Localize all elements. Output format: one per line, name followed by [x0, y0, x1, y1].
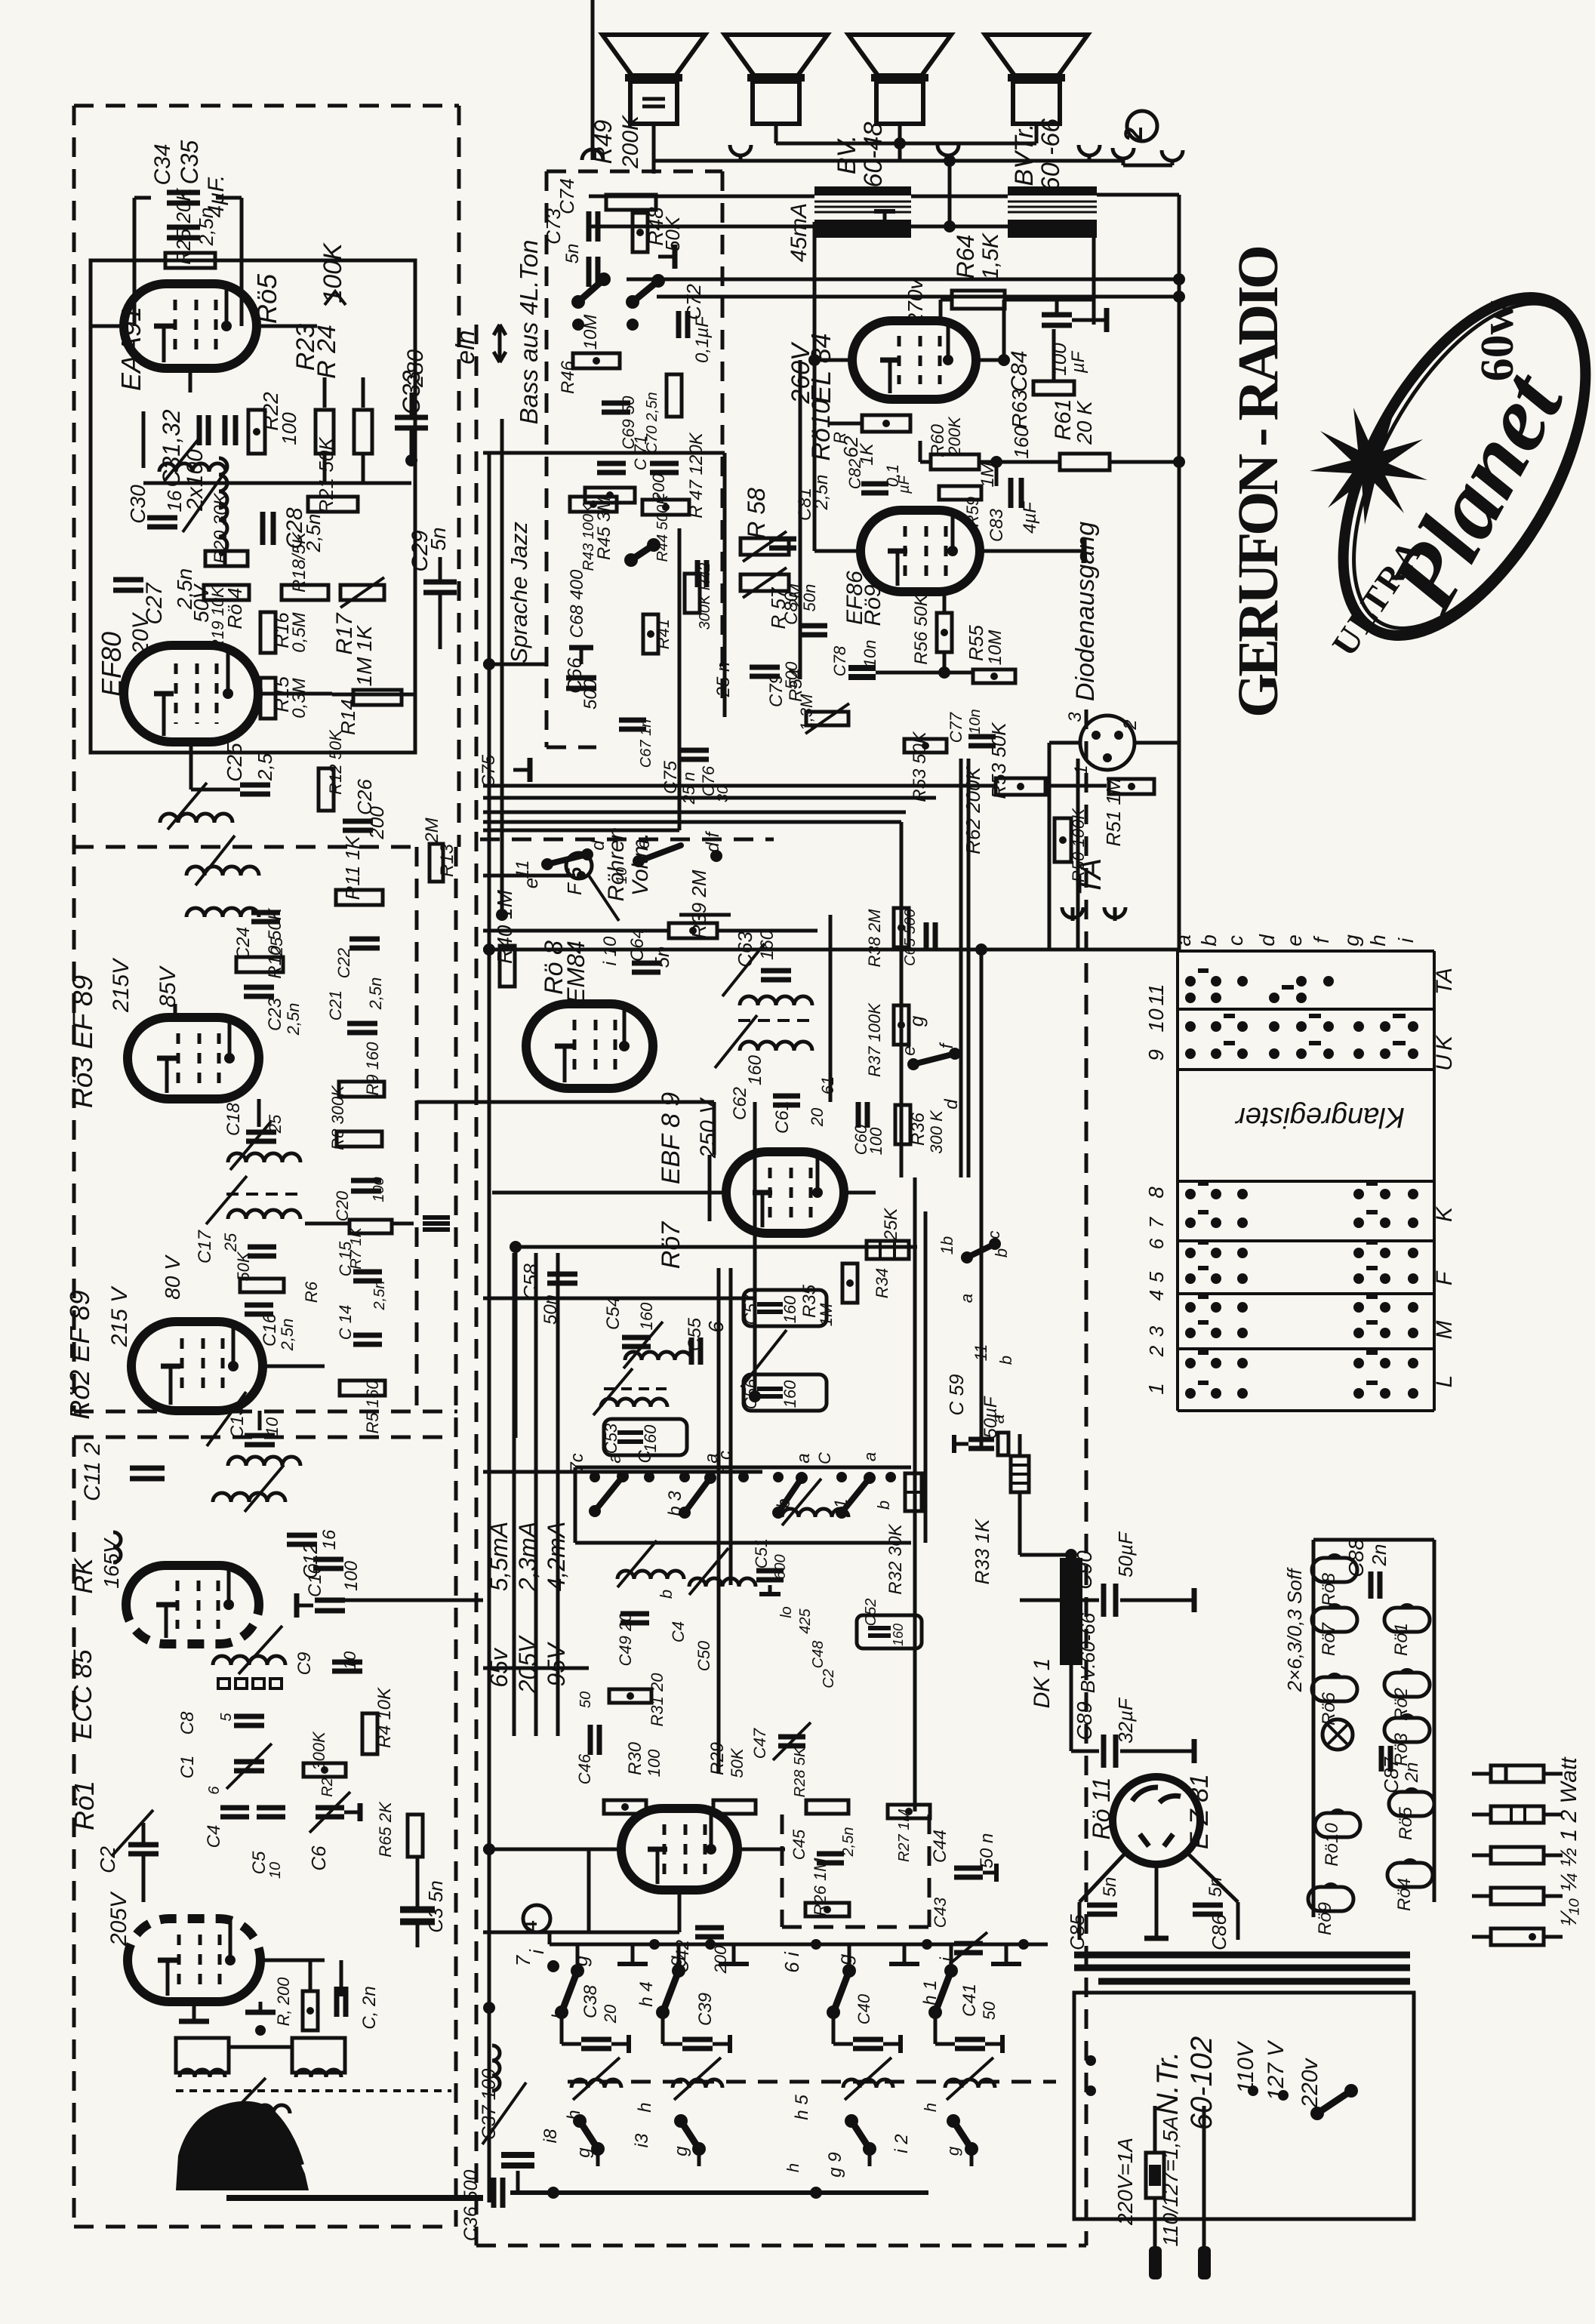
svg-text:a: a [605, 1453, 625, 1463]
svg-text:C47: C47 [750, 1728, 769, 1759]
svg-text:1M: 1M [817, 1303, 836, 1326]
svg-text:F: F [563, 882, 586, 895]
svg-text:C1: C1 [177, 1756, 198, 1779]
svg-text:2M: 2M [422, 817, 442, 843]
svg-text:7c: 7c [567, 1453, 587, 1472]
svg-text:C, 2n: C, 2n [359, 1986, 380, 2029]
svg-text:45mA: 45mA [787, 203, 811, 262]
svg-text:e: e [1282, 934, 1306, 947]
svg-text:Rö9: Rö9 [861, 584, 885, 626]
svg-text:R59: R59 [963, 497, 982, 527]
svg-text:R31 20: R31 20 [648, 1673, 667, 1727]
svg-text:GERUFON - RADIO: GERUFON - RADIO [1227, 247, 1290, 718]
svg-text:a: a [957, 1294, 976, 1303]
svg-text:g 9: g 9 [825, 2152, 845, 2177]
svg-text:g: g [574, 2147, 594, 2158]
svg-text:R5 160: R5 160 [363, 1380, 382, 1434]
svg-text:C49 20: C49 20 [616, 1612, 635, 1667]
svg-text:50n: 50n [800, 584, 819, 612]
svg-text:U: U [1432, 1054, 1457, 1071]
svg-text:2,5n: 2,5n [840, 1827, 857, 1858]
svg-text:µF: µF [896, 474, 913, 494]
svg-text:425: 425 [797, 1608, 814, 1633]
svg-text:215V: 215V [109, 957, 134, 1013]
svg-text:10: 10 [267, 1862, 284, 1879]
svg-text:c: c [1224, 935, 1247, 946]
svg-text:i: i [1394, 937, 1418, 943]
svg-text:i8: i8 [540, 2129, 561, 2143]
svg-text:50K: 50K [728, 1747, 747, 1778]
svg-text:h 5: h 5 [792, 2095, 812, 2120]
svg-text:b: b [874, 1501, 893, 1510]
svg-text:h: h [564, 2110, 584, 2119]
svg-text:160: 160 [745, 1054, 765, 1085]
svg-text:R56 50K: R56 50K [911, 593, 931, 664]
svg-text:160: 160 [891, 1624, 906, 1646]
svg-text:2: 2 [1120, 719, 1141, 730]
svg-text:R 58: R 58 [743, 488, 770, 539]
svg-text:R64: R64 [952, 235, 979, 279]
svg-text:C84: C84 [1007, 350, 1032, 392]
svg-text:C67 1n: C67 1n [638, 719, 654, 768]
svg-text:R11 1K: R11 1K [341, 835, 364, 900]
svg-text:EAA91: EAA91 [115, 306, 146, 391]
svg-text:2,5: 2,5 [254, 753, 276, 781]
svg-text:85V: 85V [155, 965, 180, 1007]
svg-text:g: g [905, 1015, 928, 1027]
svg-text:Klangregister: Klangregister [1235, 1101, 1405, 1133]
svg-text:g: g [664, 1955, 686, 1966]
svg-text:2n: 2n [1402, 1762, 1422, 1784]
svg-text:200K: 200K [945, 416, 964, 457]
svg-text:R13: R13 [437, 843, 457, 877]
svg-text:C 59: C 59 [945, 1374, 968, 1416]
svg-text:h 4: h 4 [636, 1981, 657, 2006]
svg-text:h: h [1366, 934, 1390, 947]
svg-text:a: a [793, 1453, 814, 1463]
svg-text:h 1: h 1 [920, 1980, 941, 2005]
svg-text:R30: R30 [625, 1741, 645, 1775]
svg-text:5n: 5n [426, 527, 450, 550]
svg-text:Rö10: Rö10 [807, 399, 836, 460]
svg-text:6: 6 [704, 1321, 728, 1333]
svg-text:Sprache Jazz: Sprache Jazz [506, 522, 532, 663]
svg-text:d f: d f [703, 830, 723, 852]
svg-text:C2: C2 [96, 1846, 119, 1873]
svg-text:d: d [1255, 934, 1279, 947]
svg-text:R37 100K: R37 100K [865, 1002, 884, 1077]
svg-text:C8: C8 [177, 1711, 198, 1735]
svg-text:10M: 10M [580, 315, 601, 350]
svg-text:1b: 1b [938, 1236, 956, 1254]
svg-text:b: b [992, 1248, 1011, 1257]
svg-text:2: 2 [1119, 127, 1148, 141]
svg-text:160: 160 [641, 1424, 660, 1452]
svg-text:20: 20 [601, 2004, 620, 2024]
svg-text:a: a [989, 1414, 1008, 1424]
svg-text:R53 50K: R53 50K [910, 731, 930, 802]
svg-text:RK: RK [69, 1557, 98, 1594]
svg-text:EBF 8 9: EBF 8 9 [657, 1092, 685, 1184]
svg-text:¹⁄₁₀ ¼ ½ 1 2 Watt: ¹⁄₁₀ ¼ ½ 1 2 Watt [1557, 1756, 1581, 1926]
svg-text:160: 160 [1010, 426, 1033, 459]
svg-text:1,5K: 1,5K [978, 232, 1003, 280]
svg-text:R27 1M: R27 1M [896, 1809, 913, 1862]
svg-text:C34: C34 [150, 143, 175, 185]
svg-text:100: 100 [371, 1177, 387, 1202]
svg-text:R51 1M: R51 1M [1102, 777, 1125, 846]
svg-text:C88: C88 [1344, 1538, 1368, 1578]
svg-text:R21 50K: R21 50K [315, 436, 337, 514]
svg-text:C9: C9 [294, 1652, 315, 1676]
svg-text:100: 100 [278, 412, 300, 445]
svg-text:C2: C2 [821, 1669, 837, 1688]
svg-text:160: 160 [637, 1302, 656, 1330]
svg-text:b 3: b 3 [665, 1491, 685, 1516]
svg-text:C85: C85 [1066, 1914, 1088, 1950]
svg-text:25: 25 [221, 1233, 240, 1252]
svg-text:g: g [944, 2146, 962, 2156]
svg-text:ein: ein [451, 330, 480, 364]
svg-text:Rö1: Rö1 [1391, 1623, 1412, 1656]
svg-text:C 14: C 14 [336, 1305, 355, 1340]
svg-text:160: 160 [781, 1295, 799, 1323]
svg-text:C22: C22 [334, 948, 353, 978]
svg-text:C25: C25 [223, 743, 246, 782]
svg-text:Rö7: Rö7 [657, 1221, 685, 1269]
svg-text:10: 10 [263, 1417, 282, 1436]
svg-text:16: 16 [319, 1529, 340, 1550]
svg-text:2,5n: 2,5n [278, 1319, 297, 1352]
svg-text:60 -66: 60 -66 [1036, 119, 1065, 191]
svg-text:2,5n: 2,5n [366, 977, 385, 1011]
svg-text:2,5n: 2,5n [371, 1281, 388, 1311]
svg-text:Rö8: Rö8 [1319, 1572, 1339, 1606]
svg-text:20: 20 [808, 1107, 827, 1127]
svg-text:E Z 81: E Z 81 [1185, 1774, 1214, 1849]
svg-text:4µF: 4µF [1020, 501, 1040, 534]
svg-text:C68 400: C68 400 [567, 569, 587, 638]
svg-text:2,5n: 2,5n [302, 514, 325, 553]
svg-text:R25 20K: R25 20K [172, 187, 195, 265]
svg-text:R32 30K: R32 30K [885, 1523, 906, 1594]
svg-text:R34: R34 [873, 1268, 891, 1298]
svg-text:C21: C21 [326, 990, 345, 1020]
svg-text:C39: C39 [695, 1993, 716, 2026]
svg-text:C18: C18 [223, 1102, 244, 1136]
svg-text:200: 200 [711, 1945, 730, 1974]
svg-text:C61: C61 [772, 1100, 793, 1134]
svg-text:C13: C13 [227, 1405, 248, 1439]
svg-text:R2: R2 [319, 1778, 336, 1797]
svg-text:K: K [1432, 1034, 1457, 1051]
svg-text:C52: C52 [863, 1599, 879, 1627]
svg-text:a: a [861, 1452, 879, 1461]
svg-text:50 n: 50 n [977, 1833, 997, 1869]
svg-text:C 15: C 15 [336, 1241, 355, 1276]
svg-text:C38: C38 [580, 1984, 601, 2018]
svg-text:C65 500: C65 500 [902, 909, 919, 966]
svg-text:7: 7 [1145, 1216, 1168, 1228]
svg-text:100: 100 [1048, 343, 1070, 376]
svg-text:20 K: 20 K [1073, 400, 1096, 445]
svg-text:1K: 1K [353, 625, 376, 652]
svg-text:R62 200K: R62 200K [962, 766, 984, 854]
svg-text:2,5n: 2,5n [195, 208, 217, 247]
svg-text:C23: C23 [265, 997, 285, 1031]
svg-text:C46: C46 [575, 1753, 594, 1784]
svg-text:60-48: 60-48 [859, 122, 888, 187]
svg-text:R65 2K: R65 2K [376, 1801, 395, 1858]
svg-text:C89: C89 [1073, 1701, 1096, 1740]
svg-text:25 n: 25 n [679, 772, 698, 805]
svg-text:16: 16 [163, 490, 186, 512]
svg-text:C11 2: C11 2 [80, 1442, 105, 1501]
svg-text:R12 50K: R12 50K [326, 729, 345, 795]
svg-text:C51: C51 [752, 1538, 771, 1568]
svg-text:R36: R36 [908, 1112, 928, 1146]
svg-text:6: 6 [206, 1786, 223, 1795]
svg-text:d: d [588, 840, 608, 851]
svg-text:2×6,3/0,3 Soff: 2×6,3/0,3 Soff [1283, 1567, 1306, 1692]
svg-text:200: 200 [365, 806, 388, 840]
svg-text:g: g [671, 2146, 691, 2156]
svg-text:250 V: 250 V [696, 1097, 721, 1159]
svg-text:10M: 10M [985, 630, 1005, 666]
svg-text:60-102: 60-102 [1185, 2036, 1218, 2131]
svg-text:R26 1M: R26 1M [811, 1858, 830, 1916]
svg-text:M: M [1432, 1321, 1457, 1340]
svg-text:EL 84: EL 84 [805, 333, 836, 403]
svg-text:Rö5: Rö5 [1396, 1806, 1416, 1840]
svg-text:61: 61 [818, 1076, 837, 1094]
svg-text:R38 2M: R38 2M [865, 909, 884, 968]
svg-text:0,3M: 0,3M [289, 678, 309, 718]
svg-text:Rö 4: Rö 4 [223, 588, 246, 629]
svg-text:7: 7 [512, 1954, 534, 1966]
svg-text:R43 100K: R43 100K [580, 503, 597, 571]
svg-text:C10: C10 [305, 1563, 325, 1597]
svg-text:C17: C17 [195, 1229, 215, 1264]
svg-text:4: 4 [1145, 1290, 1168, 1301]
svg-text:C58: C58 [519, 1264, 542, 1300]
svg-text:R63: R63 [1008, 389, 1031, 429]
svg-text:b: b [1197, 934, 1221, 947]
svg-text:R44 500K: R44 500K [654, 494, 671, 562]
svg-text:i 2: i 2 [891, 2134, 912, 2153]
svg-text:C31,32: C31,32 [158, 409, 185, 487]
svg-text:R9 160: R9 160 [363, 1042, 382, 1096]
svg-text:6: 6 [1145, 1238, 1168, 1249]
svg-text:205V: 205V [106, 1891, 131, 1947]
svg-text:Bass aus 4L.Ton: Bass aus 4L.Ton [515, 240, 543, 425]
svg-text:TA: TA [1432, 968, 1457, 995]
svg-text:Diodenausgang: Diodenausgang [1071, 522, 1100, 701]
svg-text:C77: C77 [947, 712, 965, 743]
svg-text:50µF: 50µF [1114, 1531, 1137, 1578]
svg-text:C55: C55 [685, 1317, 705, 1351]
svg-text:h: h [921, 2103, 940, 2112]
svg-text:Rö5: Rö5 [251, 273, 282, 324]
svg-text:10: 10 [614, 867, 630, 884]
svg-text:500: 500 [580, 679, 601, 710]
svg-text:L: L [1432, 1375, 1457, 1388]
svg-text:11: 11 [1144, 983, 1168, 1005]
svg-text:270v: 270v [904, 278, 927, 326]
svg-text:R41: R41 [654, 619, 673, 649]
svg-text:C16: C16 [260, 1313, 280, 1347]
svg-text:Rö3 EF 89: Rö3 EF 89 [67, 975, 98, 1108]
svg-text:lo: lo [778, 1606, 795, 1618]
svg-text:C6: C6 [307, 1845, 330, 1871]
svg-text:N.Tr.: N.Tr. [1151, 2052, 1184, 2115]
svg-text:2: 2 [1145, 1345, 1168, 1357]
svg-text:10: 10 [340, 1651, 359, 1670]
svg-text:0,5M: 0,5M [289, 612, 309, 652]
svg-text:500: 500 [782, 661, 801, 689]
svg-text:Rö9: Rö9 [1315, 1902, 1335, 1935]
svg-text:R6: R6 [302, 1281, 321, 1303]
svg-text:160: 160 [757, 929, 777, 960]
svg-text:R49: R49 [590, 119, 617, 164]
svg-text:g: g [1340, 934, 1363, 947]
svg-text:2n: 2n [1368, 1544, 1390, 1567]
svg-text:C45: C45 [790, 1829, 808, 1860]
svg-text:C4: C4 [204, 1825, 224, 1848]
svg-text:280: 280 [403, 349, 428, 388]
svg-text:R14: R14 [337, 699, 359, 735]
svg-text:BVTr.: BVTr. [1010, 123, 1039, 186]
svg-text:C3 5n: C3 5n [424, 1880, 447, 1932]
svg-text:200K: 200K [618, 114, 643, 169]
svg-text:215 V: 215 V [107, 1285, 132, 1347]
svg-text:10n: 10n [861, 640, 879, 668]
svg-text:60w: 60w [1472, 300, 1523, 381]
svg-text:a: a [1172, 934, 1195, 947]
svg-text:C5: C5 [249, 1851, 269, 1874]
svg-text:C: C [815, 1452, 834, 1464]
svg-text:110/127=1,5A: 110/127=1,5A [1159, 2116, 1182, 2246]
svg-text:0,1µF: 0,1µF [692, 316, 713, 363]
svg-text:R 24: R 24 [313, 325, 341, 379]
svg-text:C36 500: C36 500 [460, 2170, 482, 2242]
svg-text:220V=1A: 220V=1A [1113, 2138, 1137, 2226]
svg-text:BV.60-66: BV.60-66 [1076, 1612, 1099, 1693]
svg-text:100: 100 [645, 1749, 664, 1777]
svg-text:C83: C83 [987, 508, 1007, 542]
svg-text:h: h [549, 2008, 569, 2018]
svg-text:EF80: EF80 [96, 632, 127, 697]
svg-text:110V: 110V [1233, 2040, 1258, 2094]
svg-text:BV.: BV. [833, 135, 861, 174]
svg-text:10n: 10n [967, 709, 984, 734]
svg-text:µF: µF [1068, 350, 1088, 374]
svg-text:Rö7: Rö7 [1319, 1621, 1339, 1656]
svg-text:Rö1: Rö1 [69, 1781, 100, 1830]
svg-text:5n: 5n [562, 244, 583, 264]
svg-text:C4: C4 [669, 1621, 688, 1642]
svg-text:R46: R46 [558, 360, 578, 394]
svg-text:C62: C62 [730, 1087, 750, 1120]
svg-text:C43: C43 [931, 1897, 950, 1928]
svg-text:25: 25 [267, 937, 286, 956]
svg-text:C44: C44 [930, 1830, 950, 1863]
svg-text:ECC 85: ECC 85 [69, 1649, 97, 1739]
svg-text:R55: R55 [965, 625, 987, 661]
svg-text:C86: C86 [1208, 1914, 1230, 1950]
svg-text:R, 200: R, 200 [274, 1977, 293, 2027]
svg-text:b: b [996, 1356, 1015, 1365]
svg-text:i3: i3 [632, 2133, 652, 2147]
svg-text:R4 10K: R4 10K [374, 1687, 395, 1748]
svg-text:1: 1 [1071, 765, 1092, 774]
svg-text:C24: C24 [233, 927, 254, 960]
svg-text:g: g [833, 1953, 856, 1965]
svg-text:50K: 50K [234, 1251, 253, 1281]
svg-text:1,3M: 1,3M [797, 694, 816, 731]
svg-text:i: i [937, 1957, 957, 1962]
svg-text:100: 100 [341, 1560, 362, 1591]
svg-text:6 i: 6 i [781, 1951, 803, 1973]
svg-text:25K: 25K [881, 1208, 901, 1242]
svg-text:h: h [635, 2102, 655, 2112]
svg-text:5: 5 [1145, 1271, 1168, 1282]
svg-text:C30: C30 [126, 485, 149, 524]
svg-text:R8 300K: R8 300K [328, 1085, 347, 1150]
svg-text:c: c [984, 1231, 1003, 1239]
svg-text:C20: C20 [333, 1190, 352, 1221]
svg-text:C48: C48 [810, 1641, 827, 1669]
svg-text:80 V: 80 V [161, 1254, 184, 1300]
svg-text:Rö4: Rö4 [1394, 1878, 1415, 1911]
svg-text:50: 50 [980, 2001, 999, 2020]
svg-text:1M: 1M [353, 657, 376, 687]
svg-text:8: 8 [1144, 1187, 1168, 1199]
svg-text:Rö 11: Rö 11 [1088, 1777, 1115, 1839]
svg-text:R45 3M: R45 3M [594, 497, 614, 560]
svg-text:Rö10: Rö10 [1322, 1823, 1342, 1867]
svg-text:C78: C78 [830, 645, 849, 676]
svg-text:h: h [784, 2163, 802, 2172]
svg-text:220v: 220v [1298, 2057, 1322, 2108]
svg-text:5n: 5n [1100, 1877, 1120, 1898]
svg-text:C82: C82 [845, 459, 864, 489]
svg-text:R40 1M: R40 1M [493, 889, 516, 964]
svg-text:3: 3 [1065, 712, 1085, 722]
svg-text:C41: C41 [959, 1984, 980, 2017]
svg-text:100: 100 [867, 1127, 885, 1155]
svg-text:9: 9 [1144, 1049, 1168, 1061]
svg-text:4: 4 [519, 1920, 541, 1932]
svg-text:300 K: 300 K [927, 1110, 946, 1154]
svg-text:C: C [635, 1450, 655, 1464]
svg-text:32µF: 32µF [1114, 1697, 1137, 1744]
svg-text:d: d [941, 1099, 962, 1110]
svg-text:R28 5K: R28 5K [792, 1746, 808, 1797]
svg-text:R33 1K: R33 1K [971, 1518, 993, 1584]
svg-text:3: 3 [1145, 1325, 1168, 1337]
svg-text:600: 600 [772, 1554, 789, 1579]
svg-text:F: F [1432, 1270, 1457, 1285]
svg-text:C72: C72 [682, 284, 705, 320]
svg-text:50: 50 [577, 1691, 594, 1708]
svg-text:5: 5 [218, 1713, 235, 1722]
svg-text:30: 30 [715, 786, 731, 802]
svg-text:C54: C54 [603, 1297, 624, 1330]
svg-text:C35: C35 [176, 140, 203, 184]
svg-text:5n: 5n [1205, 1877, 1226, 1898]
svg-text:K: K [1432, 1205, 1457, 1222]
